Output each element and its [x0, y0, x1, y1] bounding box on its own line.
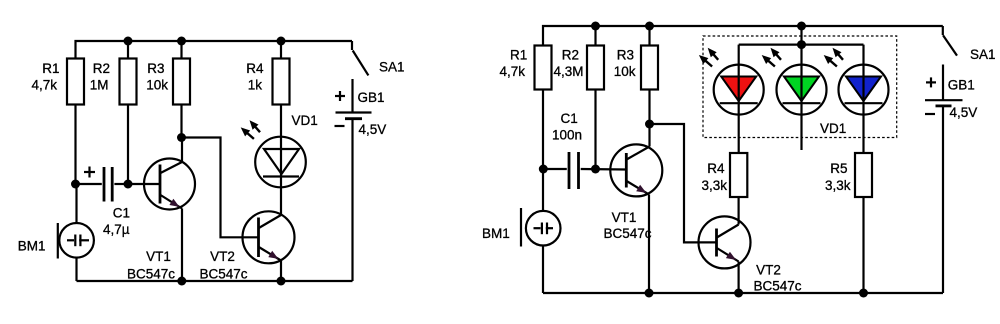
svg-text:3,3k: 3,3k: [701, 178, 727, 193]
wire top rail to anode bus: [800, 26, 802, 45]
svg-text:1M: 1M: [90, 78, 109, 93]
svg-text:VT1: VT1: [612, 210, 637, 225]
junction dots (right circuit): [539, 22, 868, 298]
wire LED anode bus: [739, 43, 864, 45]
resistor R2 (left): [90, 41, 137, 105]
wire: top rail (right circuit): [543, 26, 943, 46]
svg-text:BC547c: BC547c: [199, 267, 247, 282]
svg-text:VD1: VD1: [820, 121, 846, 136]
svg-text:VT2: VT2: [756, 263, 781, 278]
svg-text:BM1: BM1: [482, 226, 510, 241]
svg-text:BC547c: BC547c: [127, 267, 175, 282]
svg-text:4,7µ: 4,7µ: [103, 222, 130, 237]
LED VD1 blue element: [824, 45, 889, 115]
LED VD1 green element: [762, 45, 827, 150]
microphone BM1 (left): [18, 184, 94, 281]
svg-text:3,3k: 3,3k: [825, 178, 851, 193]
resistor R3 (right): [614, 26, 658, 90]
wire red LED cathode to R4: [738, 115, 740, 153]
wire R1 bottom to node D: [542, 90, 544, 170]
battery GB1 (right): [925, 65, 977, 121]
LED VD1 (left): [241, 113, 318, 187]
svg-text:4,5V: 4,5V: [950, 105, 978, 120]
resistor R1 (right): [499, 46, 551, 90]
microphone BM1 (right): [482, 169, 561, 293]
svg-text:4,5V: 4,5V: [359, 122, 387, 137]
svg-text:C1: C1: [113, 206, 130, 221]
wire node F to VT2 base (right): [650, 124, 717, 242]
svg-text:C1: C1: [561, 111, 578, 126]
dashed box around VD1 LED assembly: [703, 36, 897, 138]
wire R1 bottom to node A: [74, 105, 76, 185]
wire R3 bottom to node F: [648, 90, 650, 125]
wire node C to VT2 base: [182, 138, 259, 238]
svg-text:BC547c: BC547c: [753, 279, 801, 294]
svg-text:VT2: VT2: [210, 249, 235, 264]
junction dots (left circuit): [71, 37, 286, 286]
wire bottom rail (right circuit): [543, 292, 943, 294]
wire blue LED cathode to R5: [862, 115, 864, 153]
resistor R1 (left): [31, 59, 84, 105]
transistor VT1 (left): [127, 138, 195, 282]
svg-text:GB1: GB1: [358, 90, 385, 105]
svg-text:GB1: GB1: [948, 78, 975, 93]
svg-text:BM1: BM1: [18, 239, 46, 254]
svg-text:R3: R3: [617, 48, 634, 63]
wire: top rail (left circuit): [76, 41, 353, 59]
transistor VT1 (right): [603, 124, 662, 293]
svg-text:R1: R1: [510, 48, 527, 63]
svg-text:BC547c: BC547c: [603, 226, 651, 241]
capacitor C1 (right): [543, 111, 626, 189]
svg-text:R2: R2: [562, 48, 579, 63]
svg-text:1k: 1k: [248, 78, 263, 93]
wire R5 bottom to bottom rail: [862, 197, 864, 293]
svg-text:SA1: SA1: [379, 60, 405, 75]
capacitor C1 (left): [76, 167, 131, 238]
svg-text:4,7k: 4,7k: [31, 78, 57, 93]
svg-text:R5: R5: [830, 161, 847, 176]
wire battery minus down right rail (right circuit): [942, 107, 944, 293]
svg-text:R4: R4: [246, 61, 264, 76]
wire R2 bottom to node E: [594, 90, 596, 170]
svg-text:100n: 100n: [552, 128, 582, 143]
resistor R4 (left): [246, 41, 289, 105]
wire bottom rail (left circuit): [77, 280, 353, 282]
wire R2 bottom to node B: [127, 105, 129, 185]
svg-text:VD1: VD1: [292, 113, 318, 128]
svg-text:4,3M: 4,3M: [553, 64, 583, 79]
svg-text:R2: R2: [93, 61, 110, 76]
transistor VT2 (left): [199, 211, 294, 281]
transistor VT2 (right): [699, 197, 802, 294]
svg-text:R4: R4: [707, 161, 725, 176]
resistor R4 (right): [701, 153, 747, 197]
wire R4 bottom through LED VD1 to VT2 collector: [280, 105, 282, 216]
LED VD1 red element: [699, 45, 764, 115]
svg-text:10k: 10k: [146, 78, 168, 93]
svg-text:10k: 10k: [614, 64, 636, 79]
svg-text:SA1: SA1: [970, 47, 996, 62]
battery GB1 (left): [335, 79, 387, 137]
wire battery minus down right rail (left circuit): [351, 120, 353, 282]
resistor R3 (left): [146, 41, 190, 105]
resistor R5 (right): [825, 153, 872, 197]
svg-text:VT1: VT1: [146, 249, 171, 264]
svg-text:4,7k: 4,7k: [499, 64, 525, 79]
wire R3 bottom to node C: [180, 105, 182, 138]
svg-text:R1: R1: [42, 61, 59, 76]
svg-text:R3: R3: [147, 61, 164, 76]
switch SA1 (left): [352, 41, 405, 75]
resistor R2 (right): [553, 26, 604, 90]
switch SA1 (right): [943, 26, 996, 62]
